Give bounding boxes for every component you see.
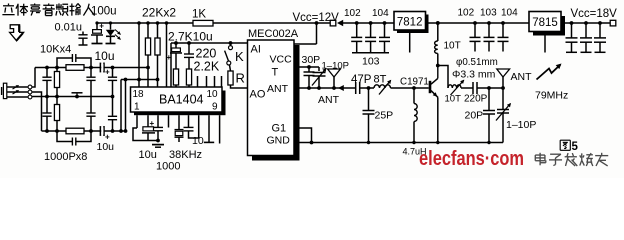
svg-text:elecfans·com: elecfans·com (419, 147, 524, 170)
svg-text:18: 18 (133, 89, 145, 100)
svg-text:100u: 100u (91, 6, 117, 18)
svg-text:+: + (167, 53, 172, 62)
svg-text:103: 103 (362, 56, 380, 68)
svg-text:220P: 220P (464, 94, 488, 105)
svg-text:2.7K10u: 2.7K10u (168, 30, 213, 44)
svg-text:1K: 1K (192, 9, 206, 21)
svg-text:30P: 30P (302, 54, 321, 66)
svg-text:ANT: ANT (511, 71, 533, 83)
svg-text:ANT: ANT (267, 83, 289, 95)
svg-text:9: 9 (212, 102, 218, 113)
svg-text:10T: 10T (445, 94, 462, 105)
svg-text:Φ3.3 mm: Φ3.3 mm (452, 69, 496, 81)
svg-text:G1: G1 (272, 123, 287, 135)
svg-text:25P: 25P (375, 110, 394, 122)
svg-text:102: 102 (458, 8, 475, 19)
svg-text:K: K (235, 49, 244, 64)
svg-text:102: 102 (344, 8, 361, 19)
svg-text:220: 220 (196, 47, 217, 61)
svg-text:7812: 7812 (397, 16, 423, 28)
svg-text:47P: 47P (351, 74, 372, 86)
svg-text:10u: 10u (97, 141, 115, 153)
svg-text:MEC002A: MEC002A (248, 28, 299, 40)
svg-text:C1971: C1971 (400, 77, 429, 88)
svg-text:BA1404: BA1404 (159, 93, 204, 107)
svg-text:R: R (236, 71, 245, 86)
svg-text:AO: AO (250, 89, 266, 101)
svg-text:GND: GND (267, 135, 291, 147)
svg-text:10u: 10u (95, 49, 115, 63)
svg-text:φ0.51mm: φ0.51mm (456, 57, 498, 68)
svg-text:22Kx2: 22Kx2 (142, 6, 176, 20)
svg-text:1: 1 (134, 102, 140, 113)
svg-text:Vcc=18V: Vcc=18V (571, 8, 618, 20)
svg-text:1000Px8: 1000Px8 (44, 151, 87, 163)
svg-text:79MHz: 79MHz (535, 90, 568, 102)
svg-text:+: + (99, 22, 104, 31)
svg-text:1000: 1000 (156, 161, 180, 173)
svg-text:AI: AI (251, 44, 261, 56)
svg-text:+: + (105, 68, 110, 77)
svg-text:10Kx4: 10Kx4 (40, 44, 71, 56)
svg-text:10T: 10T (444, 41, 461, 52)
svg-text:Vcc=12V: Vcc=12V (293, 12, 340, 24)
svg-text:10: 10 (192, 135, 204, 147)
svg-text:1–10P: 1–10P (506, 119, 536, 131)
svg-text:8T: 8T (374, 74, 387, 86)
svg-text:103: 103 (480, 8, 497, 19)
svg-text:10u: 10u (139, 149, 157, 161)
svg-text:T: T (272, 67, 279, 79)
svg-text:+: + (150, 119, 155, 128)
svg-text:104: 104 (501, 8, 518, 19)
svg-text:ANT: ANT (318, 94, 340, 106)
svg-text:0.01u: 0.01u (55, 22, 83, 34)
svg-text:104: 104 (372, 8, 389, 19)
svg-text:7815: 7815 (532, 17, 558, 29)
svg-text:38KHz: 38KHz (169, 149, 202, 161)
svg-text:20P: 20P (465, 110, 484, 122)
svg-text:5: 5 (572, 141, 579, 153)
svg-text:10: 10 (207, 89, 219, 100)
svg-text:VCC: VCC (270, 54, 293, 66)
svg-text:2.2K: 2.2K (194, 60, 220, 74)
